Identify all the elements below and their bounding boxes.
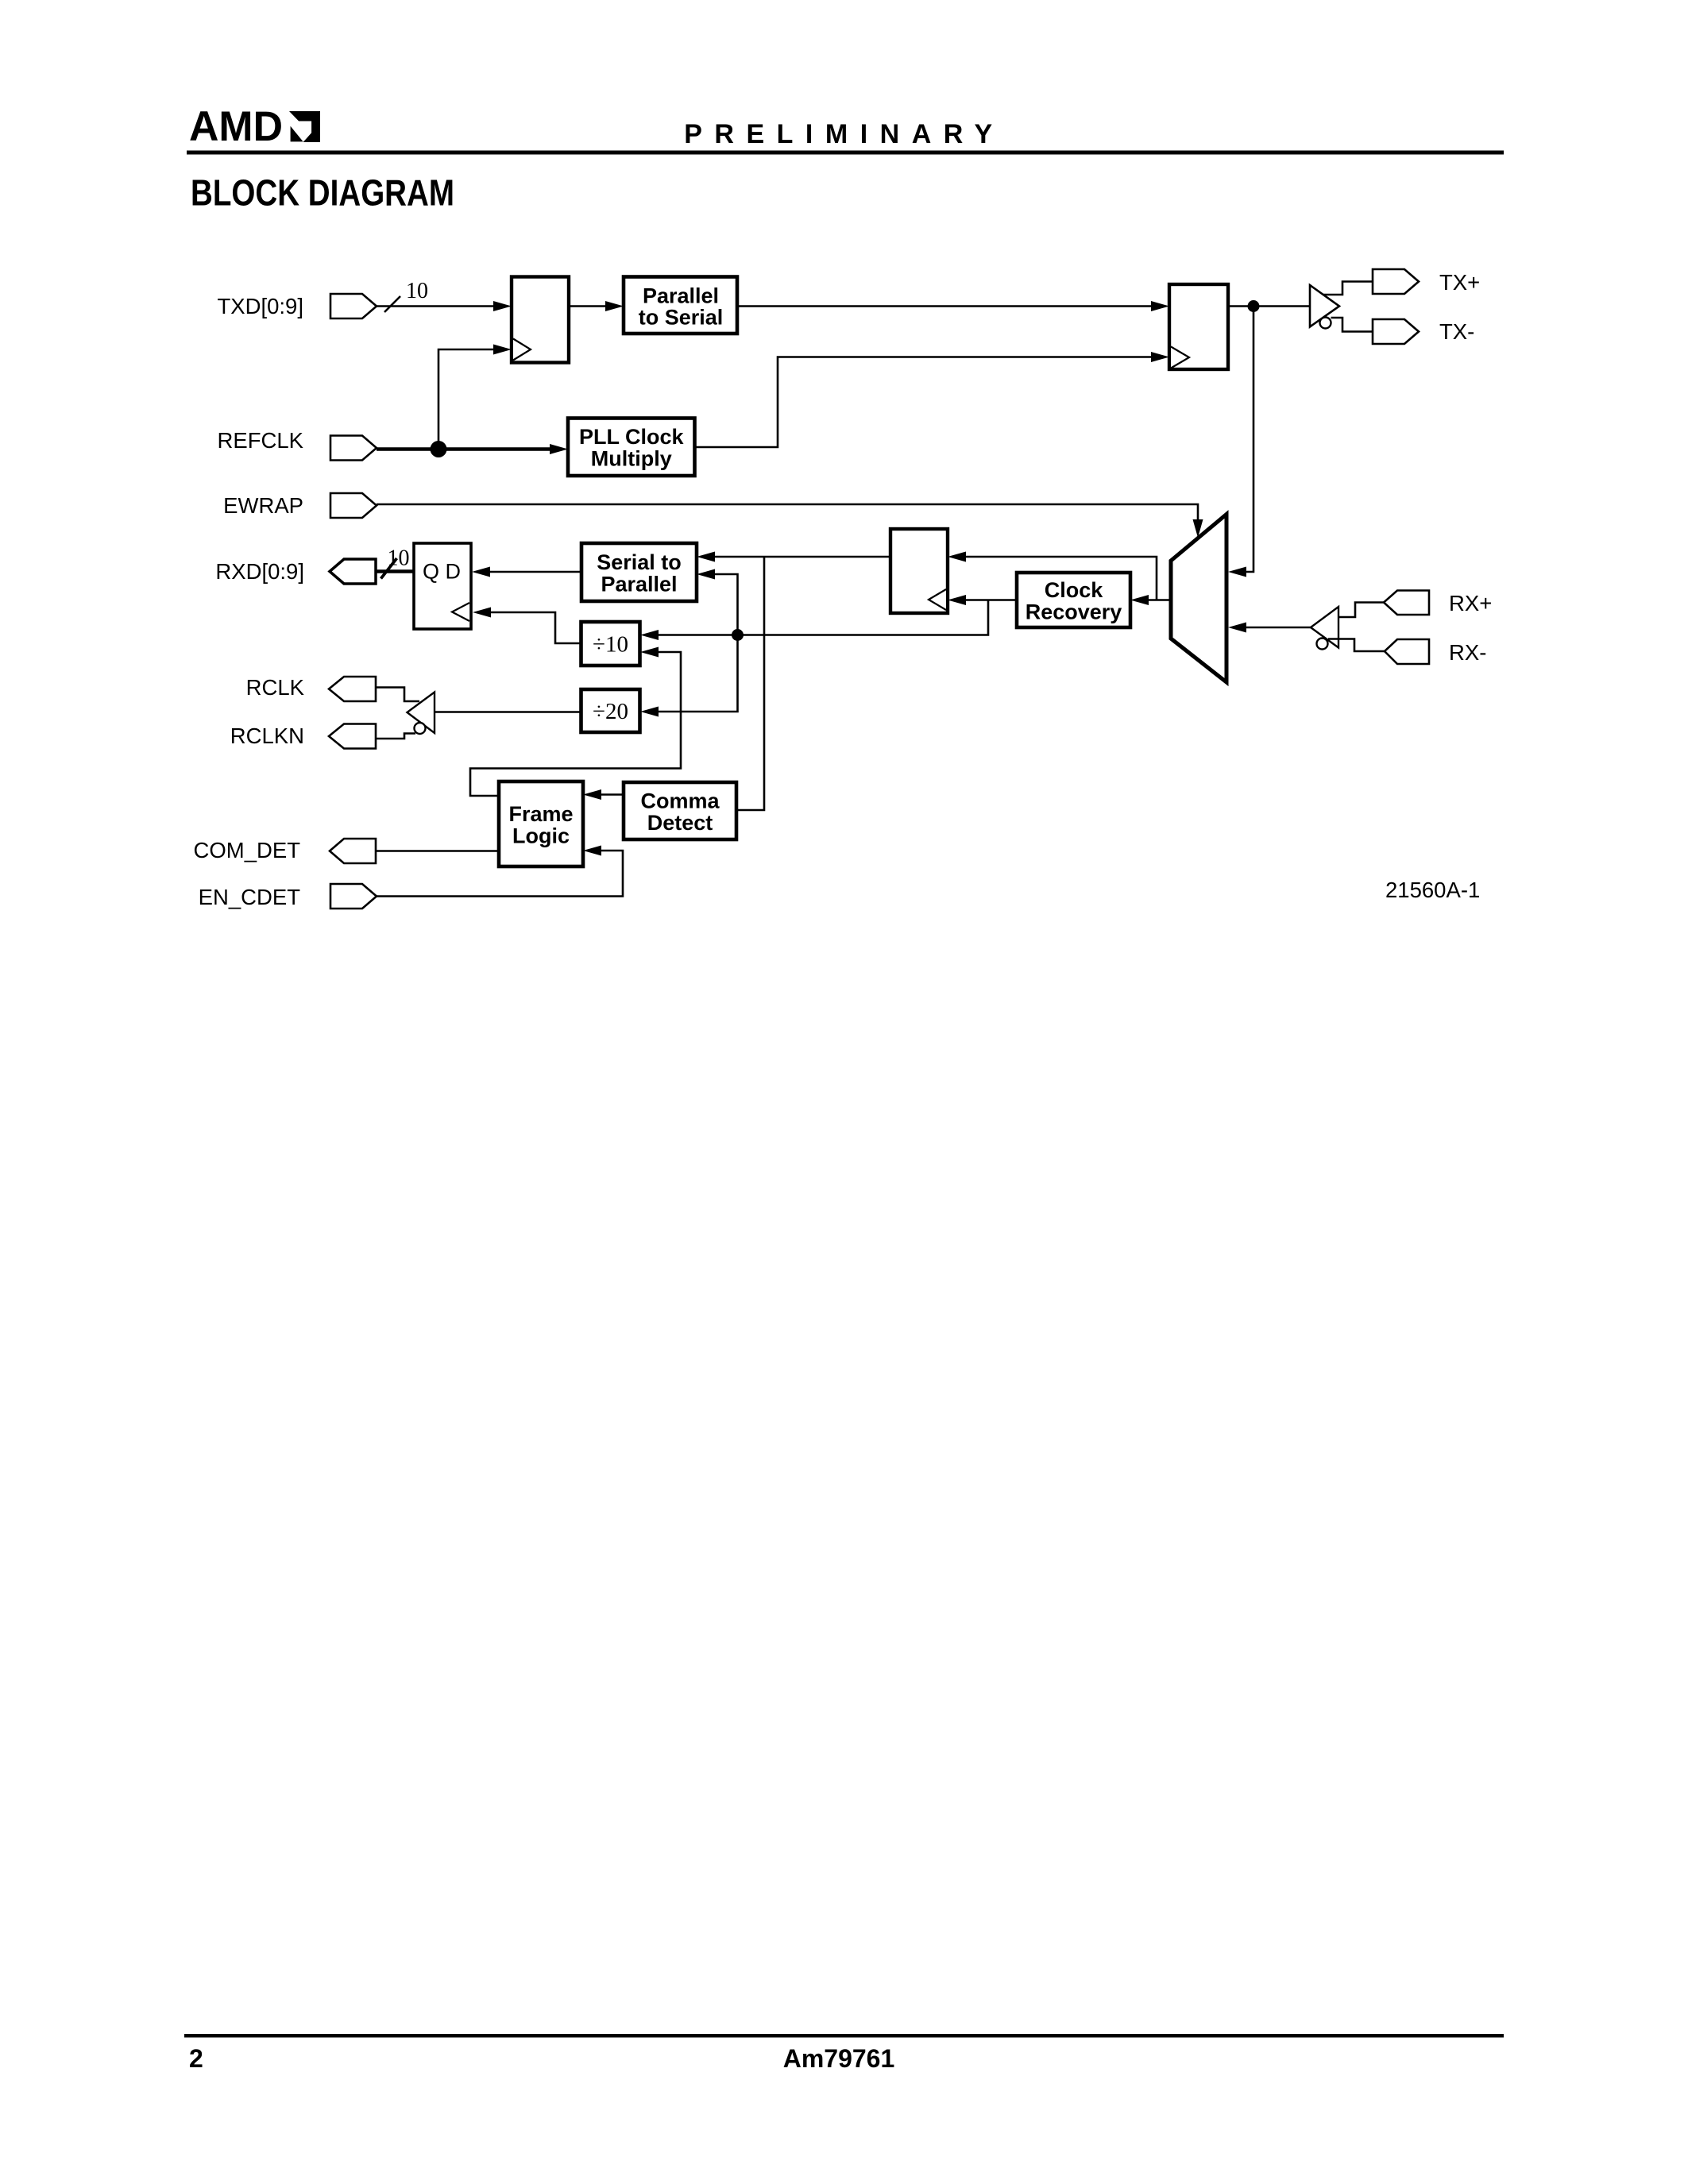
RCLK buffer bubble: [415, 723, 426, 734]
mux 2:1: [1171, 515, 1226, 683]
arrowhead into U1 data: [493, 301, 512, 311]
svg-text:TX-: TX-: [1439, 319, 1474, 344]
clock pin triangle U1: [513, 339, 531, 361]
wire serial data down to Comma Detect: [736, 557, 764, 810]
svg-text:BLOCK DIAGRAM: BLOCK DIAGRAM: [191, 172, 454, 214]
register Q D output latch: [414, 543, 471, 629]
svg-text:REFCLK: REFCLK: [218, 428, 304, 453]
connector EWRAP input: [330, 493, 377, 518]
arrowhead EWRAP into mux top: [1193, 519, 1203, 538]
clock pin triangle U3: [929, 589, 946, 610]
connector EN_CDET input: [330, 884, 377, 909]
svg-text:RCLKN: RCLKN: [230, 723, 304, 748]
svg-text:to Serial: to Serial: [639, 306, 724, 330]
svg-text:PRELIMINARY: PRELIMINARY: [684, 119, 1004, 149]
svg-text:10: 10: [406, 279, 428, 303]
wire RX buffer to mux: [1242, 627, 1311, 629]
svg-text:÷10: ÷10: [593, 632, 628, 658]
svg-text:Serial to: Serial to: [597, 550, 682, 574]
block Clock Recovery: [1017, 573, 1130, 627]
svg-text:TXD[0:9]: TXD[0:9]: [217, 294, 303, 318]
svg-text:PLL Clock: PLL Clock: [579, 425, 685, 449]
svg-text:Frame: Frame: [508, 802, 573, 826]
arrowhead into div10 lower input: [640, 647, 659, 658]
svg-text:COM_DET: COM_DET: [194, 838, 301, 862]
wire TX driver bubble to TX-: [1331, 318, 1373, 332]
wire TX node down to mux input: [1242, 307, 1253, 573]
wire RX- to buffer bubble: [1328, 639, 1385, 652]
svg-text:RX+: RX+: [1449, 591, 1492, 615]
RX receiver buffer: [1311, 607, 1338, 648]
RX receiver bubble: [1317, 639, 1328, 650]
arrowhead into S2P lower input: [697, 569, 715, 580]
clock pin triangle U2: [1171, 347, 1189, 369]
bus slash RXD (bold): [381, 558, 397, 579]
AMD logotype: [189, 103, 283, 150]
footer rule: [184, 2034, 1504, 2038]
register U3 (RX latch): [890, 529, 948, 613]
register U1 (TX input latch): [512, 277, 569, 363]
block PLL Clock Multiply: [568, 419, 695, 477]
svg-text:÷20: ÷20: [593, 699, 628, 724]
wire Comma Detect to Frame Logic: [597, 793, 624, 796]
svg-text:21560A-1: 21560A-1: [1385, 878, 1480, 902]
wire mux output tee up to U3 data: [962, 557, 1157, 600]
block Comma Detect: [624, 782, 736, 839]
wire U1 clock from REFCLK: [438, 349, 497, 450]
arrowhead into Frame Logic lower: [583, 846, 601, 856]
wire div20 to RCLK buffer: [435, 711, 581, 713]
arrowhead into mux (loopback): [1228, 567, 1246, 577]
arrowhead into QD data: [472, 567, 490, 577]
arrowhead into PLL: [550, 444, 568, 454]
arrowhead into div20 input: [640, 707, 659, 717]
TX driver buffer: [1310, 285, 1339, 327]
arrowhead into U1 clock: [493, 345, 512, 355]
arrowhead into Clock Recovery: [1130, 595, 1149, 605]
arrowhead into Frame Logic upper: [583, 789, 601, 800]
svg-text:Comma: Comma: [640, 789, 720, 813]
svg-text:2: 2: [189, 2044, 203, 2073]
wire TXD to register U1: [377, 305, 497, 307]
wire Parallel-to-Serial to register U2: [737, 305, 1155, 307]
arrowhead into S2P upper input: [697, 552, 715, 562]
junction dot TX serial node: [1248, 300, 1260, 312]
block divide-by-20: [581, 689, 640, 732]
svg-text:RCLK: RCLK: [246, 675, 305, 700]
wire Clock Recovery to U3 clock: [962, 599, 1017, 601]
wire clock dot down to div20: [655, 635, 738, 712]
svg-text:10: 10: [388, 546, 410, 571]
TX driver bubble: [1320, 318, 1331, 329]
RCLK buffer triangle: [408, 693, 435, 734]
AMD arrow symbol: [289, 111, 320, 142]
wire RX+ to buffer: [1338, 603, 1384, 618]
svg-text:Logic: Logic: [512, 824, 570, 848]
connector TX- output: [1373, 319, 1419, 344]
wire RCLKN from buffer bubble: [376, 734, 415, 739]
block Serial to Parallel: [581, 543, 697, 601]
connector RXD[0:9] output (bold): [330, 559, 376, 584]
svg-text:Parallel: Parallel: [643, 284, 719, 308]
arrowhead into U2 clock: [1151, 352, 1169, 362]
connector RX- input: [1385, 639, 1429, 664]
svg-text:EWRAP: EWRAP: [223, 493, 303, 518]
arrowhead into U3 clock: [948, 595, 966, 605]
svg-text:Q D: Q D: [423, 560, 461, 584]
svg-text:RXD[0:9]: RXD[0:9]: [215, 559, 304, 584]
svg-text:TX+: TX+: [1439, 270, 1480, 295]
arrowhead into U2 data: [1151, 301, 1169, 311]
wire REFCLK to PLL (bold): [377, 447, 555, 451]
svg-text:EN_CDET: EN_CDET: [199, 885, 301, 909]
svg-text:Detect: Detect: [647, 811, 713, 835]
wire EWRAP to mux select: [377, 504, 1198, 522]
svg-text:Parallel: Parallel: [601, 573, 677, 596]
connector RCLKN output: [329, 724, 376, 749]
header rule: [187, 151, 1504, 155]
connector COM_DET output: [330, 839, 376, 863]
wire frame logic to div10 lower input: [470, 652, 681, 796]
connector TX+ output: [1373, 269, 1419, 294]
wire RXD bold: [376, 569, 414, 573]
junction dot recovered clock: [732, 629, 744, 641]
arrowhead RX into mux: [1228, 623, 1246, 633]
junction dot REFCLK: [431, 441, 447, 457]
svg-text:Clock: Clock: [1045, 578, 1104, 602]
svg-text:Multiply: Multiply: [591, 447, 672, 471]
arrowhead into Parallel to Serial: [605, 301, 624, 311]
wire clock dot up to Serial-to-Parallel lower input: [711, 574, 738, 635]
wire U1 to Parallel-to-Serial: [569, 305, 609, 307]
connector RCLK output: [329, 677, 376, 701]
block divide-by-10: [581, 622, 640, 666]
wire mux output to clock recovery: [1145, 599, 1171, 601]
clock pin triangle QD: [452, 603, 469, 621]
wire U3 out to Serial-to-Parallel upper input: [711, 556, 890, 558]
svg-text:RX-: RX-: [1449, 640, 1486, 665]
connector RX+ input: [1384, 591, 1429, 615]
arrowhead into U3 data: [948, 552, 966, 562]
arrowhead into div10 upper input: [640, 630, 659, 640]
wire S2P to QD data: [486, 571, 581, 573]
connector TXD[0:9] input: [330, 294, 377, 318]
wire RCLK from buffer: [376, 688, 419, 702]
wire U2 to TX driver: [1228, 305, 1310, 307]
svg-text:AMD: AMD: [189, 103, 283, 150]
wire TX driver to TX+: [1323, 282, 1373, 295]
block Frame Logic: [499, 781, 583, 866]
wire recovered clock down to dividers: [655, 600, 988, 635]
wire div10 out to QD clock: [487, 612, 581, 643]
block Parallel to Serial: [624, 277, 737, 334]
bus slash TXD: [384, 296, 400, 312]
svg-text:Am79761: Am79761: [783, 2044, 895, 2073]
wire PLL to U2 clock: [695, 357, 1156, 448]
wire EN_CDET to Frame Logic lower: [377, 851, 623, 897]
svg-text:Recovery: Recovery: [1026, 600, 1122, 624]
wire Frame Logic to COM_DET: [376, 850, 499, 852]
arrowhead into QD clock: [473, 608, 491, 618]
register U2 (TX output latch): [1169, 284, 1228, 369]
connector REFCLK input: [330, 436, 377, 461]
